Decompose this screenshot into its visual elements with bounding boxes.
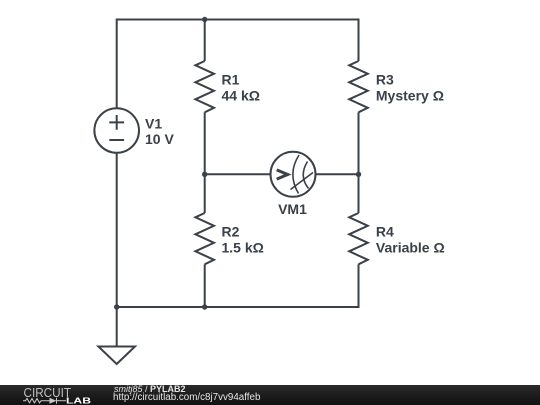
- svg-text:CIRCUIT: CIRCUIT: [24, 385, 72, 400]
- svg-text:R2: R2: [222, 224, 240, 240]
- svg-text:1.5 kΩ: 1.5 kΩ: [222, 240, 264, 256]
- svg-text:LAB: LAB: [66, 395, 91, 405]
- svg-text:R4: R4: [376, 224, 394, 240]
- svg-text:44 kΩ: 44 kΩ: [222, 88, 260, 104]
- svg-text:10 V: 10 V: [145, 131, 174, 147]
- svg-text:R1: R1: [222, 72, 240, 88]
- svg-text:Mystery Ω: Mystery Ω: [376, 88, 444, 104]
- svg-text:V1: V1: [145, 116, 162, 132]
- svg-text:VM1: VM1: [278, 201, 307, 217]
- svg-text:Variable Ω: Variable Ω: [376, 240, 445, 256]
- svg-text:R3: R3: [376, 72, 394, 88]
